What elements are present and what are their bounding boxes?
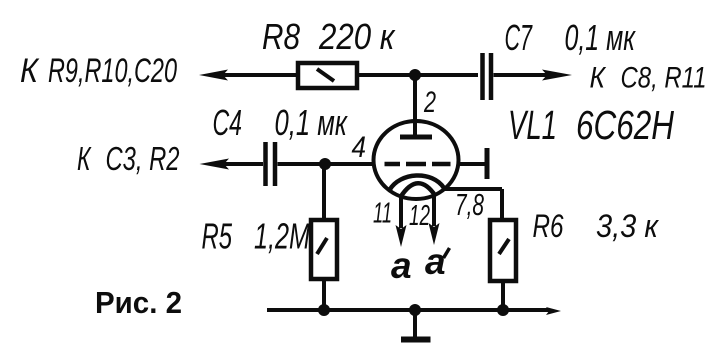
svg-text:6С62Н: 6С62Н xyxy=(576,102,674,148)
svg-text:11: 11 xyxy=(373,198,392,230)
svg-text:0,1 мк: 0,1 мк xyxy=(275,102,349,143)
svg-text:1,2М: 1,2М xyxy=(254,216,310,257)
svg-text:VL1: VL1 xyxy=(508,102,557,148)
svg-text:C3, R2: C3, R2 xyxy=(106,140,180,177)
svg-text:3,3 к: 3,3 к xyxy=(596,208,660,244)
svg-text:R6: R6 xyxy=(533,208,564,244)
svg-text:К: К xyxy=(77,140,92,177)
svg-text:Рис. 2: Рис. 2 xyxy=(95,285,182,320)
svg-text:К: К xyxy=(590,62,608,95)
svg-text:а: а xyxy=(391,245,412,286)
svg-text:R8: R8 xyxy=(262,16,300,57)
svg-text:7,8: 7,8 xyxy=(455,187,485,222)
svg-text:R5: R5 xyxy=(202,216,233,257)
svg-text:2: 2 xyxy=(423,86,436,119)
svg-text:C4: C4 xyxy=(213,102,243,143)
svg-text:а: а xyxy=(425,241,446,282)
svg-text:12: 12 xyxy=(409,200,430,232)
svg-text:C7: C7 xyxy=(505,17,534,58)
svg-text:C8, R11: C8, R11 xyxy=(621,62,707,95)
svg-text:0,1 мк: 0,1 мк xyxy=(565,17,637,58)
svg-text:4: 4 xyxy=(352,131,367,164)
svg-text:220 к: 220 к xyxy=(318,16,396,57)
svg-text:R9,R10,C20: R9,R10,C20 xyxy=(48,52,177,90)
svg-text:К: К xyxy=(20,52,40,90)
